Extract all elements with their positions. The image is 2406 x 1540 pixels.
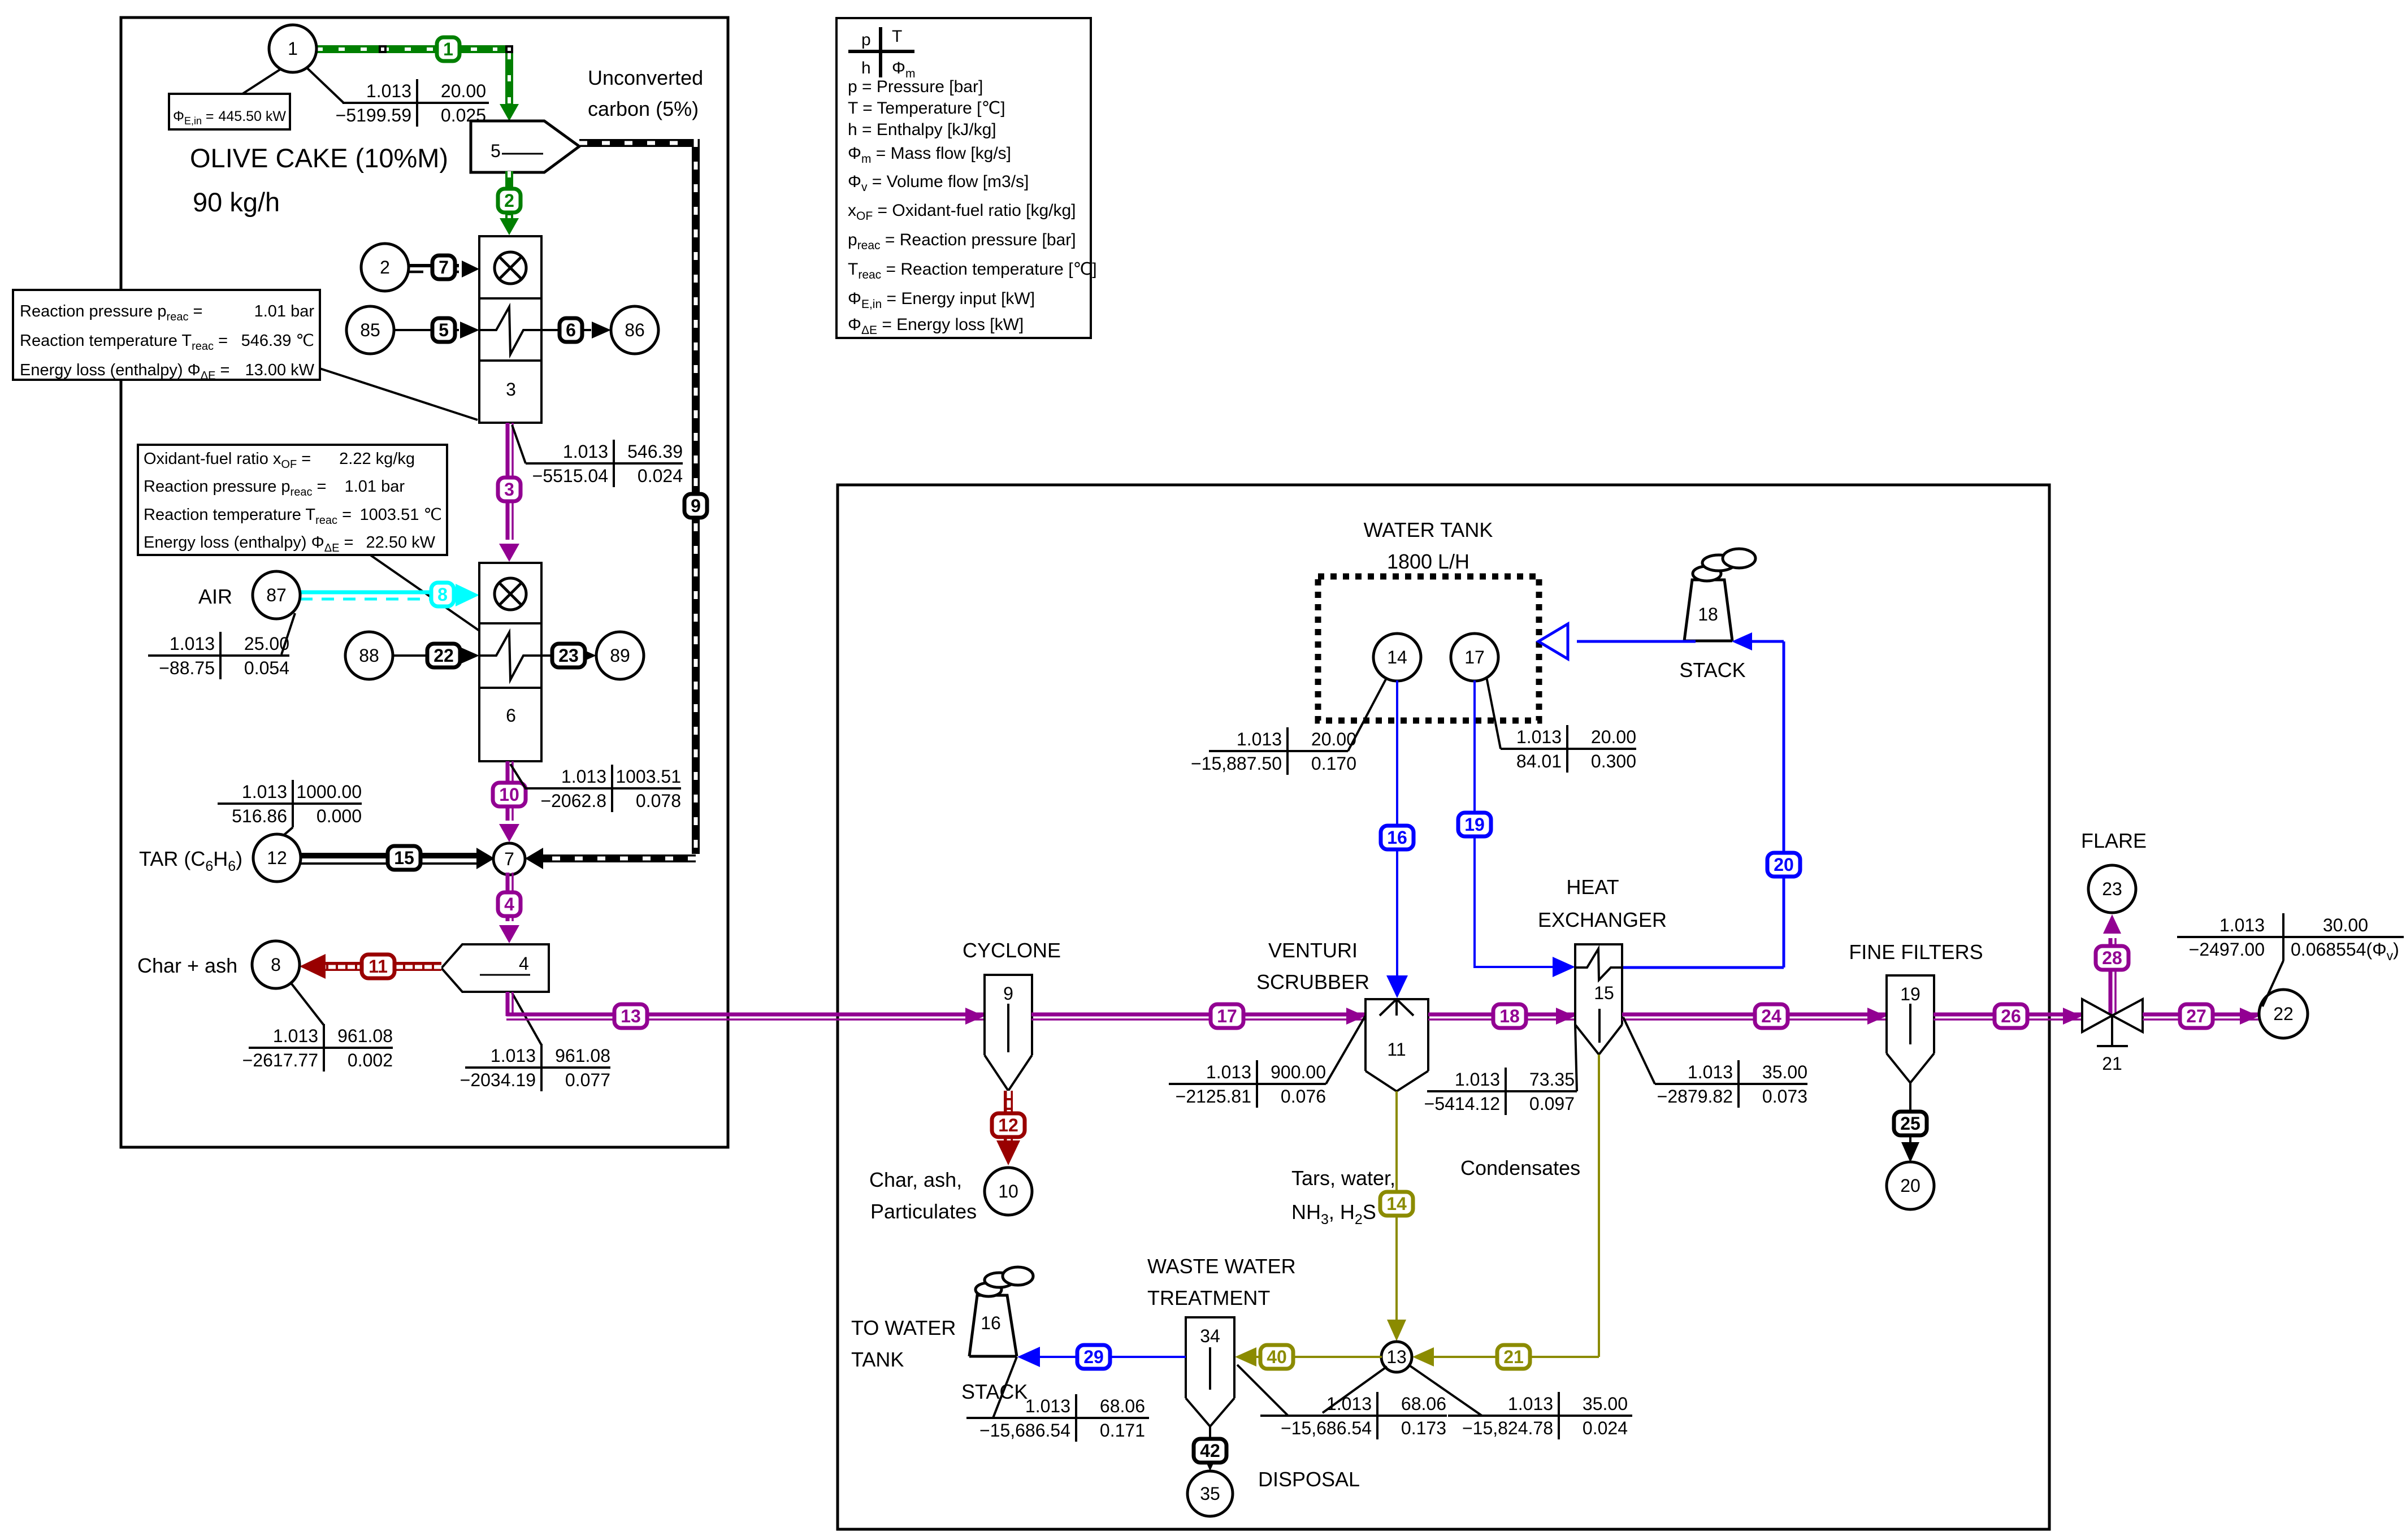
svg-text:22.50 kW: 22.50 kW bbox=[366, 533, 436, 552]
svg-text:11: 11 bbox=[1387, 1039, 1406, 1060]
svg-text:−5515.04: −5515.04 bbox=[532, 466, 608, 486]
svg-text:23: 23 bbox=[2102, 879, 2122, 899]
svg-text:1.013: 1.013 bbox=[1455, 1069, 1500, 1090]
stream data pipe 24 bbox=[1655, 1083, 1807, 1085]
svg-text:1: 1 bbox=[443, 39, 453, 59]
callout node 13 to stream data 21 bbox=[1410, 1366, 1482, 1416]
svg-text:WASTE WATER: WASTE WATER bbox=[1147, 1255, 1296, 1278]
stream data pipe 40 bbox=[1260, 1415, 1447, 1417]
svg-text:25: 25 bbox=[1900, 1113, 1921, 1134]
svg-text:FINE FILTERS: FINE FILTERS bbox=[1849, 940, 1983, 964]
svg-text:68.06: 68.06 bbox=[1100, 1396, 1145, 1416]
svg-text:34: 34 bbox=[1200, 1326, 1220, 1346]
svg-text:13.00 kW: 13.00 kW bbox=[245, 361, 315, 379]
svg-text:29: 29 bbox=[1083, 1347, 1104, 1367]
svg-text:35: 35 bbox=[1200, 1483, 1220, 1504]
svg-text:Treac​ = Reaction temperature: Treac​ = Reaction temperature [℃] bbox=[848, 260, 1097, 281]
component 4 (separator) bbox=[441, 944, 549, 992]
mixer symbol component 3 bbox=[495, 252, 526, 284]
right system boundary frame bbox=[838, 485, 2049, 1529]
svg-text:13: 13 bbox=[1386, 1347, 1407, 1367]
svg-text:40: 40 bbox=[1267, 1347, 1287, 1367]
node 7 (junction) bbox=[493, 843, 525, 875]
svg-text:1: 1 bbox=[288, 38, 298, 59]
svg-text:EXCHANGER: EXCHANGER bbox=[1538, 908, 1667, 931]
component 5 (fuel input) bbox=[471, 121, 579, 172]
callout line node1 to stream data bbox=[307, 68, 344, 103]
blue line stack to water tank bbox=[1577, 640, 1696, 643]
venturi scrubber component 11 bbox=[1365, 999, 1428, 1071]
olive pipe 40 bbox=[1249, 1356, 1382, 1358]
svg-text:68.06: 68.06 bbox=[1401, 1394, 1446, 1414]
svg-text:Char, ash,: Char, ash, bbox=[869, 1168, 962, 1191]
svg-text:1000.00: 1000.00 bbox=[296, 782, 362, 802]
pipe 5 bbox=[394, 329, 459, 331]
svg-text:28: 28 bbox=[2102, 948, 2122, 968]
pipe 7 (heat input) bbox=[409, 264, 459, 267]
stream data pipe 21 bbox=[1448, 1415, 1632, 1417]
svg-text:25.00: 25.00 bbox=[244, 634, 289, 654]
pipe 12 (dark red cyclone bottoms) bbox=[1004, 1091, 1013, 1150]
pipe label 3 bbox=[498, 478, 521, 501]
svg-text:12: 12 bbox=[998, 1115, 1018, 1135]
svg-text:1003.51: 1003.51 bbox=[615, 766, 681, 787]
pipe 23 bbox=[541, 654, 576, 657]
svg-text:89: 89 bbox=[610, 645, 630, 666]
component 3 (pyrolysis reactor) bbox=[479, 236, 541, 423]
svg-text:8: 8 bbox=[271, 955, 281, 975]
svg-text:−2062.8: −2062.8 bbox=[540, 791, 606, 811]
svg-text:carbon (5%): carbon (5%) bbox=[588, 97, 699, 120]
svg-text:86: 86 bbox=[625, 320, 645, 340]
pipe label 40 bbox=[1260, 1345, 1293, 1369]
callout stack 16 to stream data bbox=[993, 1357, 1017, 1418]
svg-text:T = Temperature [℃]: T = Temperature [℃] bbox=[848, 99, 1005, 118]
svg-text:p: p bbox=[861, 31, 871, 49]
svg-text:90 kg/h: 90 kg/h bbox=[193, 187, 280, 217]
svg-text:24: 24 bbox=[1761, 1006, 1781, 1026]
svg-text:0.173: 0.173 bbox=[1401, 1418, 1446, 1438]
svg-text:CYCLONE: CYCLONE bbox=[963, 939, 1061, 962]
pipe label 5 bbox=[432, 318, 455, 342]
svg-text:−5199.59: −5199.59 bbox=[336, 105, 411, 125]
svg-text:TO WATER: TO WATER bbox=[851, 1316, 956, 1339]
junction square on pipe 1 bbox=[379, 45, 387, 53]
corner square on pipe 1 bbox=[505, 45, 513, 53]
cyclone component 9 bbox=[985, 975, 1032, 1055]
svg-text:6: 6 bbox=[566, 320, 576, 340]
svg-text:Tars, water,: Tars, water, bbox=[1291, 1166, 1395, 1190]
svg-text:FLARE: FLARE bbox=[2081, 829, 2147, 852]
svg-text:11: 11 bbox=[369, 956, 388, 977]
node 10 (char sink) bbox=[985, 1168, 1032, 1215]
legend cross symbol bbox=[848, 50, 914, 53]
pipe 13 (purple main gas) bbox=[506, 992, 510, 1016]
pipe 2 (green) bbox=[505, 171, 513, 219]
pipe 4 (purple) bbox=[506, 873, 510, 921]
pipe label 8 bbox=[431, 583, 454, 606]
callout info box 3 to component 3 bbox=[320, 368, 478, 420]
heat exchanger component 15 bbox=[1575, 944, 1622, 1025]
svg-text:1.013: 1.013 bbox=[1516, 727, 1562, 747]
svg-text:−2125.81: −2125.81 bbox=[1176, 1086, 1251, 1107]
left system boundary frame bbox=[121, 18, 728, 1147]
svg-text:13: 13 bbox=[621, 1006, 641, 1026]
pipe label 20 bbox=[1767, 853, 1800, 877]
pipe 10 (purple) bbox=[506, 761, 510, 821]
pipe label 23 bbox=[552, 644, 585, 667]
pipe 8 (cyan air) bbox=[300, 591, 452, 595]
svg-text:−88.75: −88.75 bbox=[159, 658, 215, 678]
svg-text:26: 26 bbox=[2001, 1006, 2021, 1026]
svg-text:STACK: STACK bbox=[961, 1380, 1028, 1403]
svg-text:5: 5 bbox=[491, 141, 501, 161]
svg-text:Energy loss (enthalpy) ΦΔE​ =: Energy loss (enthalpy) ΦΔE​ = bbox=[144, 533, 353, 554]
mixer symbol component 6 bbox=[495, 578, 526, 610]
svg-text:0.170: 0.170 bbox=[1311, 753, 1356, 774]
pipe label 25 bbox=[1894, 1112, 1927, 1135]
svg-text:14: 14 bbox=[1386, 1194, 1407, 1214]
pipe 28 (purple to flare) bbox=[2109, 938, 2113, 1016]
svg-text:5: 5 bbox=[439, 320, 449, 340]
stream data pipe 21cond bbox=[1427, 1090, 1577, 1092]
pipe label 13 bbox=[614, 1004, 647, 1028]
callout component 3 to stream data bbox=[512, 425, 526, 463]
pipe label 22 bbox=[427, 644, 460, 667]
svg-text:AIR: AIR bbox=[198, 585, 232, 608]
callout node 87 to stream data bbox=[281, 613, 295, 654]
svg-text:4: 4 bbox=[519, 953, 529, 974]
stream data pipe 3 bbox=[526, 462, 683, 465]
svg-text:87: 87 bbox=[266, 585, 287, 605]
callout node 17 to stream data bbox=[1486, 677, 1501, 749]
svg-text:−15,824.78: −15,824.78 bbox=[1462, 1418, 1553, 1438]
svg-text:−15,686.54: −15,686.54 bbox=[979, 1420, 1070, 1441]
svg-text:WATER TANK: WATER TANK bbox=[1364, 518, 1493, 541]
svg-text:1.013: 1.013 bbox=[1206, 1062, 1251, 1082]
svg-text:0.073: 0.073 bbox=[1762, 1086, 1807, 1107]
node 85 bbox=[346, 306, 394, 354]
svg-text:20.00: 20.00 bbox=[441, 81, 486, 101]
callout node 14 to stream data bbox=[1348, 679, 1386, 751]
heat symbol component 6 bbox=[479, 632, 541, 680]
pipe 27 (purple) bbox=[2143, 1013, 2259, 1017]
olive pipe 14 (tars water) bbox=[1395, 1091, 1398, 1331]
pipe label 14 bbox=[1380, 1192, 1413, 1216]
svg-text:19: 19 bbox=[1464, 814, 1485, 835]
svg-text:Particulates: Particulates bbox=[870, 1200, 977, 1223]
stream data pipe 27 bbox=[2177, 936, 2404, 938]
svg-text:3: 3 bbox=[506, 379, 516, 400]
fine filters component 19 bbox=[1887, 975, 1934, 1053]
svg-text:0.000: 0.000 bbox=[317, 806, 362, 826]
water tank dashed box bbox=[1318, 576, 1539, 721]
svg-text:20: 20 bbox=[1774, 854, 1794, 875]
svg-text:35.00: 35.00 bbox=[1762, 1062, 1807, 1082]
svg-text:T: T bbox=[892, 27, 902, 46]
node 12 (tar source) bbox=[253, 834, 301, 882]
svg-text:0.002: 0.002 bbox=[348, 1050, 393, 1070]
svg-text:35.00: 35.00 bbox=[1583, 1394, 1628, 1414]
svg-text:1.013: 1.013 bbox=[273, 1026, 318, 1046]
svg-text:DISPOSAL: DISPOSAL bbox=[1258, 1468, 1360, 1491]
svg-text:73.35: 73.35 bbox=[1529, 1069, 1575, 1090]
svg-text:TAR (C6​H6​): TAR (C6​H6​) bbox=[139, 847, 242, 874]
callout WWT to stream data bbox=[1237, 1365, 1288, 1416]
svg-text:42: 42 bbox=[1200, 1441, 1220, 1461]
smoke stack 16 bbox=[976, 1267, 1033, 1296]
node 87 (air source) bbox=[253, 571, 300, 619]
svg-text:4: 4 bbox=[504, 894, 514, 914]
svg-text:20.00: 20.00 bbox=[1311, 729, 1356, 749]
callout component 6 to stream data bbox=[510, 764, 526, 788]
pipe label 2 bbox=[498, 189, 521, 212]
svg-text:19: 19 bbox=[1900, 984, 1921, 1004]
svg-text:1.013: 1.013 bbox=[1688, 1062, 1733, 1082]
svg-text:Φv​ = Volume flow [m3/s]: Φv​ = Volume flow [m3/s] bbox=[848, 172, 1029, 194]
pipe label 18 bbox=[1493, 1004, 1526, 1028]
pipe 20 (blue to stack) bbox=[1622, 966, 1784, 969]
svg-text:18: 18 bbox=[1698, 604, 1718, 624]
pipe label 21 bbox=[1497, 1345, 1530, 1369]
svg-text:18: 18 bbox=[1499, 1006, 1520, 1026]
svg-text:3: 3 bbox=[504, 479, 514, 500]
pipe label 1 bbox=[437, 37, 459, 61]
svg-text:0.068554(Φv​): 0.068554(Φv​) bbox=[2291, 939, 2399, 963]
svg-text:1.01 bar: 1.01 bar bbox=[345, 478, 405, 496]
legend box bbox=[836, 18, 1091, 338]
energy input box bbox=[169, 94, 290, 129]
callout info box 6 to component 6 bbox=[370, 555, 479, 631]
svg-text:1.013: 1.013 bbox=[170, 634, 215, 654]
svg-text:SCRUBBER: SCRUBBER bbox=[1256, 970, 1369, 994]
callout component 4 to stream data bbox=[512, 993, 541, 1045]
stream data pipe 15 bbox=[218, 802, 362, 805]
pipe label 26 bbox=[1995, 1004, 2027, 1028]
svg-text:NH3​, H2​S: NH3​, H2​S bbox=[1291, 1200, 1376, 1227]
svg-text:0.300: 0.300 bbox=[1591, 751, 1636, 771]
svg-text:1.013: 1.013 bbox=[1237, 729, 1282, 749]
svg-text:445.50 kW: 445.50 kW bbox=[218, 109, 286, 124]
node 8 (char+ash sink) bbox=[252, 941, 300, 988]
svg-text:20.00: 20.00 bbox=[1591, 727, 1636, 747]
stream data pipe 1 bbox=[343, 102, 489, 104]
svg-text:30.00: 30.00 bbox=[2323, 915, 2368, 935]
olive pipe 21 (condensates) bbox=[1598, 1055, 1600, 1357]
stack component 16 bbox=[969, 1295, 1017, 1356]
smoke stack 18 bbox=[1693, 549, 1755, 581]
waste water treatment component 34 bbox=[1186, 1317, 1234, 1398]
node 86 bbox=[611, 306, 658, 354]
open arrow into water tank bbox=[1538, 624, 1568, 659]
svg-text:16: 16 bbox=[1387, 827, 1407, 848]
callout HX left to stream data bbox=[1575, 1025, 1577, 1091]
svg-text:Char + ash: Char + ash bbox=[137, 954, 237, 977]
node 20 (fines sink) bbox=[1887, 1162, 1934, 1209]
svg-text:−2617.77: −2617.77 bbox=[242, 1050, 318, 1070]
pipe 16 (blue water) bbox=[1396, 680, 1398, 987]
svg-text:9: 9 bbox=[1003, 983, 1013, 1004]
svg-text:7: 7 bbox=[439, 257, 449, 277]
callout venturi to stream data bbox=[1326, 1016, 1365, 1084]
stream data pipe 11 bbox=[249, 1047, 393, 1049]
pipe 26 (purple) bbox=[1934, 1013, 2082, 1017]
svg-text:900.00: 900.00 bbox=[1271, 1062, 1326, 1082]
pipe 42 (disposal) bbox=[1209, 1426, 1211, 1458]
svg-text:1.013: 1.013 bbox=[491, 1046, 536, 1066]
callout line node1 to energy box bbox=[242, 69, 281, 94]
pipe label 17 bbox=[1211, 1004, 1243, 1028]
callout node 13 to stream data 40 bbox=[1323, 1367, 1387, 1413]
stream data pipe 10 bbox=[524, 787, 681, 789]
svg-text:21: 21 bbox=[1503, 1347, 1524, 1367]
svg-text:OLIVE CAKE (10%M): OLIVE CAKE (10%M) bbox=[190, 143, 448, 173]
svg-text:0.097: 0.097 bbox=[1529, 1094, 1575, 1114]
node 23 (flare sink) bbox=[2088, 865, 2136, 913]
callout node 12 to stream data bbox=[281, 827, 293, 838]
pipe label 28 bbox=[2096, 946, 2128, 970]
pipe 9 (black dashed recycle) bbox=[579, 139, 692, 147]
svg-text:6: 6 bbox=[506, 705, 516, 726]
svg-text:0.171: 0.171 bbox=[1100, 1420, 1145, 1441]
node 89 bbox=[596, 632, 644, 679]
svg-text:0.076: 0.076 bbox=[1281, 1086, 1326, 1107]
svg-text:17: 17 bbox=[1464, 647, 1485, 667]
svg-text:Φm​ = Mass flow [kg/s]: Φm​ = Mass flow [kg/s] bbox=[848, 144, 1011, 166]
svg-text:8: 8 bbox=[437, 584, 448, 605]
svg-text:0.024: 0.024 bbox=[1583, 1418, 1628, 1438]
pipe label 27 bbox=[2180, 1004, 2213, 1028]
svg-text:961.08: 961.08 bbox=[337, 1026, 393, 1046]
svg-text:1800 L/H: 1800 L/H bbox=[1387, 550, 1469, 573]
valve component 21 bbox=[2082, 999, 2112, 1032]
svg-text:27: 27 bbox=[2186, 1006, 2206, 1026]
svg-text:2: 2 bbox=[380, 257, 390, 277]
svg-text:1.013: 1.013 bbox=[563, 441, 608, 462]
pipe label 9 bbox=[684, 494, 707, 518]
callout HX right to stream data bbox=[1623, 1017, 1655, 1084]
svg-text:1.013: 1.013 bbox=[561, 766, 606, 787]
pipe label 7 bbox=[432, 255, 455, 279]
heat symbol component 15 bbox=[1575, 949, 1622, 980]
stream data pipe 19 bbox=[1501, 748, 1636, 750]
stack component 18 bbox=[1684, 580, 1732, 641]
svg-text:516.86: 516.86 bbox=[232, 806, 287, 826]
node 13 (junction) bbox=[1381, 1342, 1412, 1372]
pipe label 10 bbox=[493, 783, 526, 806]
svg-text:12: 12 bbox=[267, 848, 287, 868]
svg-text:1.01 bar: 1.01 bar bbox=[254, 302, 315, 320]
svg-text:0.077: 0.077 bbox=[565, 1070, 610, 1090]
svg-text:546.39 ℃: 546.39 ℃ bbox=[241, 332, 314, 350]
component 6 (gasifier) bbox=[479, 563, 541, 761]
svg-text:1.013: 1.013 bbox=[366, 81, 411, 101]
node 22 (product gas sink) bbox=[2259, 990, 2308, 1038]
svg-text:85: 85 bbox=[360, 320, 380, 340]
svg-text:TANK: TANK bbox=[851, 1348, 904, 1371]
svg-text:10: 10 bbox=[998, 1181, 1018, 1201]
svg-text:9: 9 bbox=[691, 496, 701, 516]
svg-text:−15,686.54: −15,686.54 bbox=[1281, 1418, 1372, 1438]
svg-text:−2034.19: −2034.19 bbox=[460, 1070, 536, 1090]
svg-text:7: 7 bbox=[504, 849, 514, 869]
pipe 1 (green fuel feed) bbox=[317, 45, 509, 53]
svg-text:xOF​ = Oxidant-fuel ratio [kg/: xOF​ = Oxidant-fuel ratio [kg/kg] bbox=[848, 201, 1076, 223]
pipe label 42 bbox=[1194, 1439, 1226, 1463]
svg-text:15: 15 bbox=[1594, 983, 1614, 1003]
svg-text:1003.51 ℃: 1003.51 ℃ bbox=[360, 506, 442, 524]
svg-text:1.013: 1.013 bbox=[1508, 1394, 1553, 1414]
pipe 19 (blue water) bbox=[1475, 680, 1554, 967]
pipe 24 (purple) bbox=[1622, 1013, 1887, 1017]
svg-text:0.024: 0.024 bbox=[638, 466, 683, 486]
svg-text:1.013: 1.013 bbox=[2219, 915, 2265, 935]
pipe 17 (purple) bbox=[1031, 1013, 1365, 1017]
svg-text:−2497.00: −2497.00 bbox=[2189, 939, 2265, 960]
svg-text:h: h bbox=[861, 59, 871, 77]
stream data pipe 16 bbox=[1209, 750, 1348, 752]
pipe label 12 bbox=[992, 1113, 1025, 1137]
pipe 18 (purple) bbox=[1428, 1013, 1575, 1017]
svg-text:15: 15 bbox=[394, 848, 414, 868]
info box component 6 bbox=[138, 445, 447, 555]
pipe 3 (purple) bbox=[506, 423, 510, 540]
pipe 11 (dark red char) bbox=[322, 962, 441, 971]
pipe 29 (blue to stack) bbox=[1040, 1356, 1186, 1358]
svg-text:−2879.82: −2879.82 bbox=[1657, 1086, 1733, 1107]
svg-text:HEAT: HEAT bbox=[1566, 875, 1619, 899]
svg-text:14: 14 bbox=[1387, 647, 1407, 667]
pipe 6 bbox=[541, 329, 591, 331]
pipe 22 bbox=[393, 654, 459, 657]
pipe label 4 bbox=[498, 892, 521, 916]
svg-text:−5414.12: −5414.12 bbox=[1424, 1094, 1500, 1114]
node 35 (disposal sink) bbox=[1187, 1471, 1233, 1516]
svg-text:0.078: 0.078 bbox=[636, 791, 681, 811]
svg-text:17: 17 bbox=[1217, 1006, 1237, 1026]
svg-text:961.08: 961.08 bbox=[555, 1046, 610, 1066]
svg-text:−15,887.50: −15,887.50 bbox=[1191, 753, 1282, 774]
node 88 bbox=[345, 632, 393, 679]
heat symbol component 3 bbox=[479, 307, 541, 354]
pipe label 24 bbox=[1755, 1004, 1788, 1028]
svg-text:2: 2 bbox=[504, 190, 514, 211]
svg-text:16: 16 bbox=[981, 1313, 1001, 1333]
pipe label 11 bbox=[362, 955, 395, 978]
svg-text:10: 10 bbox=[499, 784, 519, 805]
svg-text:p = Pressure [bar]: p = Pressure [bar] bbox=[848, 77, 983, 96]
svg-text:22: 22 bbox=[2273, 1004, 2294, 1024]
svg-text:1.013: 1.013 bbox=[242, 782, 287, 802]
svg-text:h = Enthalpy [kJ/kg]: h = Enthalpy [kJ/kg] bbox=[848, 120, 996, 139]
pipe label 29 bbox=[1077, 1345, 1110, 1369]
pipe 25 (filter fines) bbox=[1909, 1083, 1911, 1153]
svg-text:1.013: 1.013 bbox=[1326, 1394, 1372, 1414]
callout node 8 to stream data bbox=[292, 984, 324, 1025]
stream data pipe 8 bbox=[148, 654, 289, 657]
svg-text:STACK: STACK bbox=[1679, 658, 1745, 682]
spray symbol venturi bbox=[1395, 999, 1398, 1016]
svg-text:preac​ = Reaction pressure [ba: preac​ = Reaction pressure [bar] bbox=[848, 231, 1076, 252]
svg-text:22: 22 bbox=[433, 645, 454, 666]
svg-text:88: 88 bbox=[359, 645, 379, 666]
svg-text:1.013: 1.013 bbox=[1025, 1396, 1070, 1416]
svg-text:20: 20 bbox=[1900, 1175, 1921, 1196]
pipe label 16 bbox=[1381, 826, 1414, 849]
svg-text:Energy loss (enthalpy) ΦΔE​ =: Energy loss (enthalpy) ΦΔE​ = bbox=[20, 361, 229, 382]
pipe label 6 bbox=[560, 318, 582, 342]
pipe label 15 bbox=[388, 846, 420, 870]
